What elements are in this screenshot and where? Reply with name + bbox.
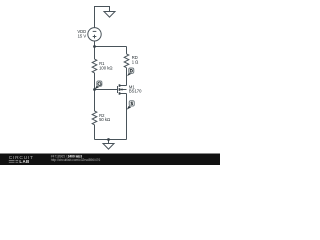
svg-text:50 kΩ: 50 kΩ <box>99 117 110 122</box>
svg-text:BS170: BS170 <box>129 89 142 94</box>
svg-text:http://circuitlab.com/c32rsd89: http://circuitlab.com/c32rsd896/476 <box>51 158 101 162</box>
svg-text:1 Ω: 1 Ω <box>132 60 139 65</box>
svg-text:15 V: 15 V <box>78 34 87 39</box>
svg-text:100 kΩ: 100 kΩ <box>99 65 112 70</box>
svg-text:LAB: LAB <box>19 159 29 164</box>
